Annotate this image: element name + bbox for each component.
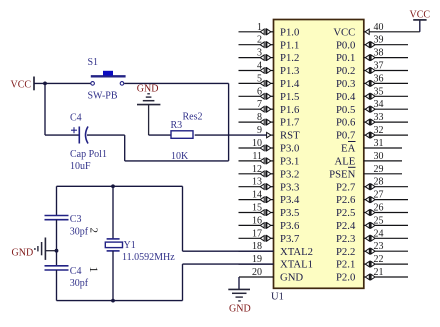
svg-text:P3.2: P3.2 [280, 168, 299, 180]
pin 23 (P2.2) wire + number [364, 241, 408, 254]
pin name P2.3 [336, 233, 355, 245]
pin name XTAL1 [280, 259, 313, 271]
svg-text:26: 26 [374, 203, 384, 214]
ground GND (chip) [228, 289, 250, 314]
pin name P3.5 [280, 207, 299, 219]
pin 12 (P3.2) wire + number [239, 164, 274, 177]
svg-text:P2.6: P2.6 [336, 194, 356, 206]
pin name EA [341, 142, 356, 155]
svg-text:C4: C4 [70, 266, 82, 277]
wire VCC to switch S1 [34, 82, 91, 84]
pin 36 (P0.3) wire + number [364, 73, 408, 86]
pin 35 (P0.4) wire + number [364, 86, 408, 99]
svg-text:P1.1: P1.1 [280, 39, 299, 51]
svg-text:P1.7: P1.7 [280, 117, 300, 129]
IC U1 (8051 MCU body) [274, 20, 364, 289]
junction node at VCC/C4 branch [43, 82, 47, 86]
capacitor C3 30pf [45, 216, 69, 220]
svg-text:4: 4 [257, 61, 262, 72]
svg-text:P0.2: P0.2 [336, 65, 355, 77]
wire GND to R3 [149, 134, 171, 136]
svg-text:27: 27 [374, 190, 384, 201]
pin 37 (P0.2) wire + number [364, 61, 408, 74]
label C4 (crystal cap) [70, 266, 82, 277]
svg-text:33: 33 [374, 112, 384, 123]
pin name P2.2 [336, 246, 355, 258]
svg-text:34: 34 [374, 99, 384, 110]
svg-text:ALE: ALE [335, 156, 356, 168]
svg-text:10uF: 10uF [70, 161, 91, 172]
label 10K [171, 151, 189, 162]
svg-text:P3.6: P3.6 [280, 220, 300, 232]
svg-text:17: 17 [252, 228, 262, 239]
svg-text:EA: EA [341, 143, 356, 155]
svg-text:6: 6 [257, 86, 262, 97]
svg-text:VCC: VCC [333, 26, 355, 38]
svg-text:PSEN: PSEN [329, 168, 355, 180]
pin 16 (P3.6) wire + number [239, 215, 274, 228]
label C4 [70, 113, 82, 124]
wire VCC branch down to C4 [45, 83, 79, 135]
pin 24 (P2.3) wire + number [364, 228, 408, 241]
pin name P1.2 [280, 52, 299, 64]
pin name P1.4 [280, 78, 300, 90]
pin 25 (P2.4) wire + number [364, 215, 408, 228]
label 10uF [70, 161, 91, 172]
pin name P0.0 [336, 39, 355, 51]
wire GND pin 20 down [238, 277, 240, 289]
pin name XTAL2 [280, 246, 313, 258]
svg-text:P1.2: P1.2 [280, 52, 299, 64]
svg-text:RST: RST [280, 130, 300, 142]
pin 17 (P3.7) wire + number [239, 228, 274, 241]
svg-text:U1: U1 [271, 292, 284, 303]
svg-text:P2.1: P2.1 [336, 259, 355, 271]
svg-text:14: 14 [252, 190, 262, 201]
pin name P3.2 [280, 168, 299, 180]
svg-text:P0.0: P0.0 [336, 39, 355, 51]
pin name P2.4 [336, 220, 356, 232]
rotated pin number 2 [88, 228, 100, 234]
capacitor C4 Cap Pol1 [71, 127, 88, 144]
pin name P3.0 [280, 143, 299, 155]
wire C4 detour to RST node [87, 83, 229, 160]
svg-text:2: 2 [257, 35, 262, 46]
wire R3 to RST pin [195, 134, 267, 136]
wire left rail middle (C3 to C4) [56, 220, 58, 266]
wire right rail to XTAL1 [183, 264, 274, 301]
pin name P3.7 [280, 233, 300, 245]
pin 40 (VCC) wire + number [364, 22, 420, 35]
wire crystal bottom rail [57, 300, 183, 302]
pin name P0.7 [336, 130, 356, 142]
svg-text:XTAL1: XTAL1 [280, 259, 313, 271]
svg-text:5: 5 [257, 73, 262, 84]
pin name P3.3 [280, 181, 299, 193]
svg-text:40: 40 [374, 22, 384, 33]
pin name P0.4 [336, 91, 356, 103]
pin name P2.5 [336, 207, 355, 219]
svg-text:P2.7: P2.7 [336, 181, 356, 193]
svg-text:28: 28 [374, 177, 384, 188]
pin name P3.6 [280, 220, 300, 232]
wire crystal top rail [57, 185, 183, 187]
svg-text:22: 22 [374, 254, 384, 265]
label 11.0592MHz [122, 252, 175, 263]
svg-text:25: 25 [374, 215, 384, 226]
pin 27 (P2.6) wire + number [364, 190, 408, 203]
svg-text:1: 1 [257, 22, 262, 33]
svg-text:P1.3: P1.3 [280, 65, 299, 77]
wire switch to RST vertical [124, 82, 228, 84]
junction node crystal top [111, 184, 115, 188]
designator U1 [271, 292, 284, 303]
svg-text:P3.0: P3.0 [280, 143, 299, 155]
power port VCC (left) [11, 77, 35, 91]
svg-text:Y1: Y1 [124, 240, 136, 251]
pin name P3.1 [280, 156, 299, 168]
svg-text:XTAL2: XTAL2 [280, 246, 313, 258]
svg-text:GND: GND [229, 304, 251, 315]
svg-text:P1.5: P1.5 [280, 91, 299, 103]
svg-text:11.0592MHz: 11.0592MHz [122, 252, 175, 263]
svg-text:10: 10 [252, 138, 262, 149]
pin 15 (P3.5) wire + number [239, 203, 274, 216]
svg-text:C4: C4 [70, 113, 82, 124]
svg-text:10K: 10K [171, 151, 189, 162]
pin name GND [280, 272, 303, 284]
svg-text:31: 31 [374, 138, 384, 149]
rotated pin number 1 [87, 267, 101, 273]
pin name VCC [333, 26, 355, 38]
svg-text:12: 12 [252, 164, 262, 175]
pin name P3.4 [280, 194, 300, 206]
svg-text:37: 37 [374, 61, 384, 72]
svg-text:24: 24 [374, 228, 384, 239]
pin name P0.6 [336, 117, 356, 129]
pin 30 (ALE) wire + number [364, 151, 402, 162]
svg-text:30: 30 [374, 151, 384, 162]
pin 3 (P1.2) wire + number [239, 48, 274, 61]
svg-text:7: 7 [257, 99, 262, 110]
pin 32 (P0.7) wire + number [364, 125, 408, 138]
svg-text:P2.2: P2.2 [336, 246, 355, 258]
pin 14 (P3.4) wire + number [239, 190, 274, 203]
pin 7 (P1.6) wire + number [239, 99, 274, 112]
power port VCC (top right) [410, 9, 431, 32]
svg-text:P3.4: P3.4 [280, 194, 300, 206]
svg-text:32: 32 [374, 125, 384, 136]
svg-text:GND: GND [12, 247, 34, 258]
label Cap Pol1 [70, 149, 107, 160]
label SW-PB [88, 90, 118, 101]
pin name P1.5 [280, 91, 299, 103]
svg-text:P0.3: P0.3 [336, 78, 355, 90]
pin 31 (EA) wire + number [364, 138, 402, 149]
crystal Y1 [105, 239, 122, 251]
label Y1 [124, 240, 136, 251]
pin 11 (P3.1) wire + number [239, 151, 274, 164]
pin name P1.6 [280, 104, 300, 116]
capacitor C4 30pf (crystal) [45, 266, 69, 270]
wire crystal upper stem [112, 186, 114, 239]
label S1 [88, 57, 99, 68]
pin name P0.5 [336, 104, 355, 116]
svg-text:38: 38 [374, 48, 384, 59]
svg-text:P1.0: P1.0 [280, 26, 299, 38]
svg-text:P0.7: P0.7 [336, 130, 356, 142]
svg-text:30pf: 30pf [70, 278, 89, 289]
svg-text:Cap Pol1: Cap Pol1 [70, 149, 107, 160]
svg-text:P0.6: P0.6 [336, 117, 356, 129]
pin name P0.1 [336, 52, 355, 64]
pin 4 (P1.3) wire + number [239, 61, 274, 74]
pin 21 (P2.0) wire + number [364, 267, 408, 280]
svg-text:SW-PB: SW-PB [88, 90, 118, 101]
pin 1 (P1.0) wire + number [239, 22, 274, 35]
svg-text:21: 21 [374, 267, 384, 278]
pin 8 (P1.7) wire + number [239, 112, 274, 125]
svg-text:P1.6: P1.6 [280, 104, 300, 116]
pin 13 (P3.3) wire + number [239, 177, 274, 190]
pin name RST [280, 130, 300, 142]
pin 26 (P2.5) wire + number [364, 203, 408, 216]
wire right rail to XTAL2 [183, 186, 274, 251]
svg-text:29: 29 [374, 164, 384, 175]
svg-text:23: 23 [374, 241, 384, 252]
resistor R3 Res2 10K [171, 131, 193, 139]
pin name P2.6 [336, 194, 356, 206]
pin 2 (P1.1) wire + number [239, 35, 274, 48]
label Res2 [183, 112, 203, 123]
svg-text:P3.3: P3.3 [280, 181, 299, 193]
svg-text:GND: GND [280, 272, 303, 284]
pin 29 (PSEN) wire + number [364, 164, 402, 175]
svg-text:P1.4: P1.4 [280, 78, 300, 90]
pin name P0.3 [336, 78, 355, 90]
svg-text:Res2: Res2 [183, 112, 203, 123]
junction node crystal bottom [111, 299, 115, 303]
svg-text:P3.7: P3.7 [280, 233, 300, 245]
wire crystal lower stem [112, 251, 114, 301]
pin name PSEN [329, 167, 355, 180]
pin name P1.1 [280, 39, 299, 51]
pin 9 (RST) wire + number [257, 125, 274, 138]
label 30pf (C4) [70, 278, 89, 289]
svg-text:R3: R3 [171, 120, 183, 131]
svg-text:13: 13 [252, 177, 262, 188]
svg-text:C3: C3 [70, 214, 82, 225]
pin 28 (P2.7) wire + number [364, 177, 408, 190]
pin name P2.7 [336, 181, 356, 193]
svg-text:30pf: 30pf [70, 227, 89, 238]
svg-text:P2.4: P2.4 [336, 220, 356, 232]
pin 18 (XTAL2) wire + number [239, 241, 274, 252]
pin name P1.0 [280, 26, 299, 38]
label C3 [70, 214, 82, 225]
pin 10 (P3.0) wire + number [239, 138, 274, 151]
svg-text:15: 15 [252, 203, 262, 214]
svg-text:P3.1: P3.1 [280, 156, 299, 168]
svg-text:39: 39 [374, 35, 384, 46]
pin 20 (GND) wire + number [239, 267, 274, 278]
label 30pf (C3) [70, 227, 89, 238]
pin 6 (P1.5) wire + number [239, 86, 274, 99]
pin 33 (P0.6) wire + number [364, 112, 408, 125]
svg-text:35: 35 [374, 86, 384, 97]
pin name P2.1 [336, 259, 355, 271]
svg-text:16: 16 [252, 215, 262, 226]
svg-text:2: 2 [88, 228, 100, 234]
pin 39 (P0.0) wire + number [364, 35, 408, 48]
switch S1 SW-PB [91, 71, 126, 85]
pin name ALE [335, 156, 356, 168]
pin name P0.2 [336, 65, 355, 77]
pin 38 (P0.1) wire + number [364, 48, 408, 61]
junction node GND/rail [55, 249, 59, 253]
ground GND (crystal) [12, 238, 57, 260]
wire left rail upper (to C3) [56, 186, 58, 215]
svg-text:P0.4: P0.4 [336, 91, 356, 103]
svg-text:P0.1: P0.1 [336, 52, 355, 64]
svg-text:P0.5: P0.5 [336, 104, 355, 116]
label R3 [171, 120, 183, 131]
pin 19 (XTAL1) wire + number [239, 254, 274, 265]
pin name P1.3 [280, 65, 299, 77]
svg-text:11: 11 [252, 151, 262, 162]
svg-text:VCC: VCC [11, 80, 32, 91]
svg-text:P3.5: P3.5 [280, 207, 299, 219]
pin 34 (P0.5) wire + number [364, 99, 408, 112]
svg-text:P2.3: P2.3 [336, 233, 355, 245]
svg-text:P2.0: P2.0 [336, 272, 355, 284]
svg-text:S1: S1 [88, 57, 99, 68]
svg-text:3: 3 [257, 48, 262, 59]
pin 5 (P1.4) wire + number [239, 73, 274, 86]
pin name P2.0 [336, 272, 355, 284]
svg-text:VCC: VCC [410, 9, 431, 20]
wire left rail lower (C4 to bottom) [56, 270, 58, 301]
svg-text:P2.5: P2.5 [336, 207, 355, 219]
pin name P1.7 [280, 117, 300, 129]
svg-text:8: 8 [257, 112, 262, 123]
svg-text:20: 20 [252, 267, 262, 278]
ground GND (reset pull-down) [137, 83, 161, 135]
svg-text:1: 1 [87, 267, 101, 273]
pin 22 (P2.1) wire + number [364, 254, 408, 267]
svg-text:GND: GND [137, 83, 159, 94]
svg-text:36: 36 [374, 73, 384, 84]
